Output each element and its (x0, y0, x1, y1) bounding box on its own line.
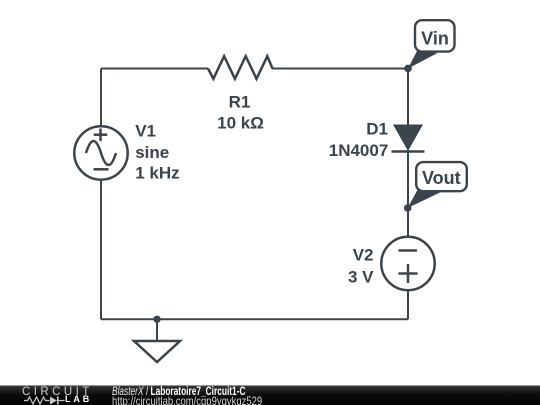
footer text line 2 (112, 395, 262, 405)
voltage source V1 (74, 122, 179, 183)
wire right vertical Vin to D1 (407, 69, 409, 125)
svg-text:V1: V1 (135, 122, 156, 141)
footer logo CIRCUIT LAB (22, 386, 93, 398)
svg-text:D1: D1 (366, 120, 388, 139)
wire left vertical top (100, 69, 102, 128)
footer text line 1 (112, 385, 245, 397)
flag Vout (408, 162, 467, 208)
svg-text:1N4007: 1N4007 (329, 141, 389, 160)
wire top-left horizontal (101, 68, 208, 70)
node Vin junction (404, 65, 412, 73)
svg-text:sine: sine (135, 143, 169, 162)
flag Vin (408, 20, 455, 68)
svg-text:10 kΩ: 10 kΩ (217, 114, 264, 133)
wire top-right horizontal (272, 68, 408, 70)
svg-text:Vin: Vin (421, 29, 449, 49)
svg-text:1 kHz: 1 kHz (135, 164, 179, 183)
wire left vertical bottom (100, 180, 102, 320)
wire V2 to bottom rail (407, 290, 409, 319)
footer bar (0, 385, 540, 405)
wire D1 cathode to V2 (407, 152, 409, 238)
svg-text:3 V: 3 V (348, 267, 374, 286)
svg-text:Vout: Vout (422, 168, 461, 188)
node Vout junction (404, 204, 412, 212)
resistor R1 (208, 56, 273, 132)
ground (134, 316, 180, 362)
svg-text:V2: V2 (353, 246, 374, 265)
svg-text:R1: R1 (229, 93, 251, 112)
diode D1 (329, 120, 425, 160)
wire bottom rail (101, 318, 408, 320)
voltage source V2 (348, 237, 435, 290)
